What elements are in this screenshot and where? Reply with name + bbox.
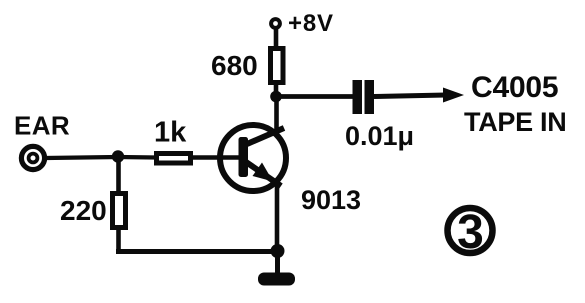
transistor Q1 collector stroke [247,128,284,144]
wire jack to node A [46,157,118,158]
wire R1 to transistor base [193,155,240,160]
wire node A down to resistor R2 [116,157,121,194]
output arrowhead [443,88,464,103]
node A junction dot [112,150,124,162]
wire node A to resistor R1 [118,155,156,160]
wire collector up to node B [274,94,279,133]
svg-text:3: 3 [457,206,484,259]
wire node C to ground [275,251,280,274]
wire emitter down to node C [275,182,280,251]
resistor R2 220 body [113,194,126,228]
svg-text:220: 220 [60,195,107,226]
svg-text:EAR: EAR [14,111,70,141]
svg-text:0.01μ: 0.01μ [345,121,414,151]
svg-text:C4005: C4005 [471,71,558,104]
svg-text:680: 680 [211,50,258,81]
svg-text:9013: 9013 [301,185,361,215]
wire node B to capacitor C1 [276,94,353,99]
svg-text:1k: 1k [154,117,187,149]
wire R2 down to bottom rail [116,227,121,254]
transistor Q1 emitter stroke with arrow [246,162,281,186]
wire R3 to +8V terminal [274,28,279,48]
wire bottom rail [116,249,277,254]
transistor Q1 circle [220,125,286,191]
svg-text:TAPE IN: TAPE IN [464,107,566,137]
connector J1 (EAR jack) [21,146,44,169]
capacitor C1 plates [353,80,375,114]
resistor R1 1k body [157,154,191,164]
ground symbol [258,273,295,286]
terminal +8V open circle [271,19,280,28]
wire capacitor to output arrow [374,95,446,97]
node C junction dot [271,244,285,258]
resistor R3 680 body [271,49,284,83]
figure number 3 circled [448,206,493,259]
transistor Q1 base bar [239,137,249,177]
node B junction dot [270,91,282,103]
wire node B up to resistor R3 [274,85,279,96]
svg-text:+8V: +8V [288,10,334,37]
